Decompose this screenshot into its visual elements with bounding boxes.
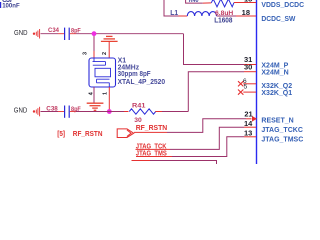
svg-text:14: 14 (244, 119, 253, 128)
svg-text:[5]: [5] (57, 129, 65, 138)
svg-text:6.8uH: 6.8uH (215, 10, 234, 17)
svg-text:JTAG_TMS: JTAG_TMS (136, 149, 167, 158)
svg-text:L1: L1 (170, 10, 178, 17)
svg-text:C38: C38 (46, 105, 58, 112)
svg-text:100nF: 100nF (2, 3, 20, 10)
svg-text:1: 1 (103, 92, 109, 95)
svg-text:R41: R41 (132, 102, 146, 109)
svg-text:JTAG_TCKC: JTAG_TCKC (261, 127, 302, 134)
svg-text:L1608: L1608 (214, 17, 232, 24)
svg-text:3: 3 (83, 52, 89, 55)
svg-text:RF_RSTN: RF_RSTN (73, 129, 103, 138)
svg-text:13: 13 (244, 128, 252, 137)
svg-text:4: 4 (88, 91, 94, 95)
svg-text:DCDC_SW: DCDC_SW (261, 16, 295, 23)
svg-text:8pF: 8pF (71, 27, 81, 34)
svg-text:2: 2 (102, 52, 108, 55)
svg-text:XTAL_4P_2520: XTAL_4P_2520 (118, 79, 166, 86)
svg-text:18: 18 (242, 8, 250, 17)
svg-text:VDDS_DCDC: VDDS_DCDC (261, 2, 304, 9)
svg-text:RF_RSTN: RF_RSTN (136, 123, 168, 132)
svg-text:JTAG_TMSC: JTAG_TMSC (261, 136, 303, 143)
svg-text:RESET_N: RESET_N (261, 117, 293, 124)
svg-text:X24M_P: X24M_P (261, 63, 288, 70)
svg-text:C34: C34 (48, 27, 59, 34)
svg-text:30ppm 8pF: 30ppm 8pF (118, 71, 152, 78)
svg-text:R40: R40 (189, 0, 199, 4)
svg-text:8pF: 8pF (71, 106, 81, 113)
svg-text:5: 5 (244, 83, 248, 90)
svg-text:GND: GND (14, 106, 27, 115)
svg-text:30: 30 (244, 63, 252, 72)
svg-text:X24M_N: X24M_N (261, 70, 288, 77)
svg-text:21: 21 (244, 109, 252, 118)
svg-text:X32K_Q1: X32K_Q1 (261, 90, 292, 97)
svg-text:15: 15 (244, 0, 252, 4)
svg-text:GND: GND (14, 28, 28, 37)
